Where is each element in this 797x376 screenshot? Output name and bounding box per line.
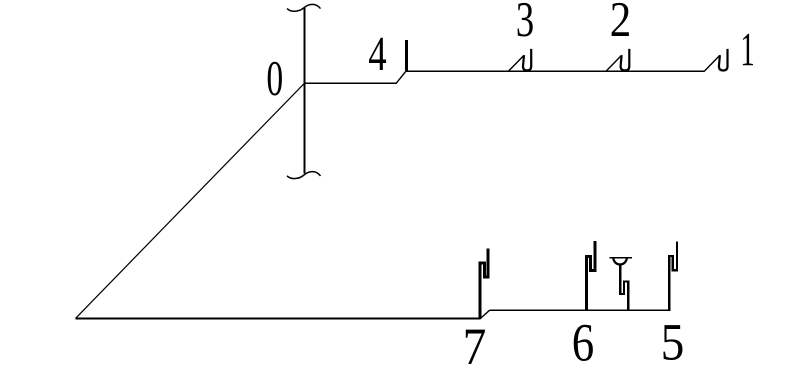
lamp fixture bowl (half circle) xyxy=(613,258,627,265)
lamp fixture top bar xyxy=(610,257,633,259)
node 0 label xyxy=(268,62,282,96)
break symbol (top of riser) xyxy=(287,4,321,11)
label "4" xyxy=(369,38,386,70)
label "7" xyxy=(466,330,485,364)
component 4 contact tick (vertical bar) xyxy=(405,40,408,71)
component 1 hook xyxy=(719,49,728,71)
component 4 switch blade (diagonal jog) xyxy=(396,70,407,83)
component 3 hook xyxy=(523,49,531,71)
label "1" xyxy=(743,34,753,66)
component 6 stem and hook xyxy=(587,241,596,311)
wire: node 0 to component 4 xyxy=(304,82,397,84)
label "3" xyxy=(518,3,533,37)
component 2 hook xyxy=(621,49,630,71)
wire: lower-right run xyxy=(490,309,670,311)
busbar riser wire (vertical) xyxy=(304,8,306,174)
lamp pendant stem (squared S-hook to wire) xyxy=(620,265,628,310)
component 2 tap diagonal xyxy=(606,55,622,71)
component 5 stem and hook xyxy=(669,242,677,311)
wire: component 4 to component 1 (upper run) xyxy=(406,70,704,72)
component 7 stem and hook xyxy=(480,249,488,319)
break symbol (bottom of riser) xyxy=(287,172,321,179)
wire: node 0 diagonal feeder to lower run xyxy=(76,83,305,318)
label "6" xyxy=(574,325,593,361)
label "2" xyxy=(612,3,629,36)
component 3 tap diagonal xyxy=(508,55,524,71)
wire: lower-left run xyxy=(76,318,481,320)
component 1 tap diagonal xyxy=(704,55,720,71)
label "5" xyxy=(663,325,682,360)
wire: jog up after component 7 xyxy=(481,310,490,318)
